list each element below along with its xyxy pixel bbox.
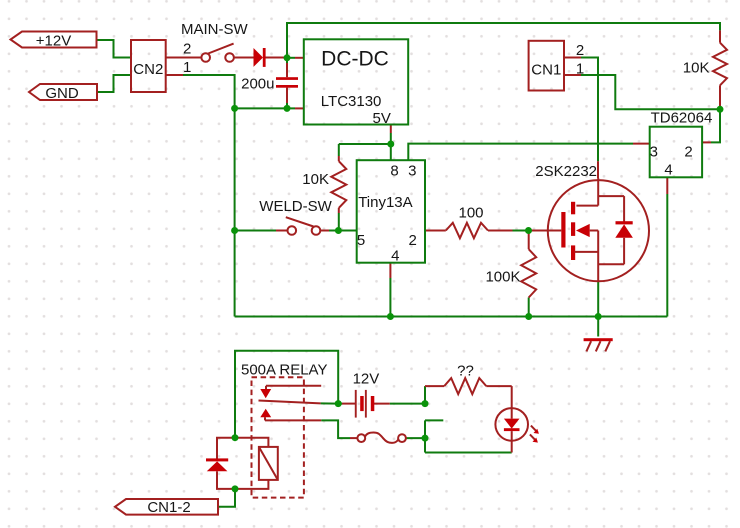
svg-text:Tiny13A: Tiny13A (358, 194, 412, 211)
svg-text:MAIN-SW: MAIN-SW (181, 21, 249, 38)
svg-text:5: 5 (357, 232, 365, 249)
svg-text:2: 2 (409, 232, 417, 249)
svg-text:2SK2232: 2SK2232 (535, 163, 597, 180)
svg-text:2: 2 (576, 42, 584, 59)
svg-text:12V: 12V (353, 371, 380, 388)
svg-text:3: 3 (650, 144, 658, 161)
svg-text:2: 2 (684, 144, 692, 161)
svg-text:2: 2 (183, 41, 191, 58)
svg-text:WELD-SW: WELD-SW (259, 198, 332, 215)
svg-text:CN2: CN2 (133, 61, 163, 78)
svg-text:5V: 5V (373, 110, 391, 127)
svg-text:200u: 200u (241, 76, 274, 93)
svg-text:1: 1 (576, 61, 584, 78)
svg-text:3: 3 (408, 163, 416, 180)
svg-text:CN1: CN1 (531, 61, 561, 78)
svg-text:100: 100 (458, 205, 483, 222)
svg-text:4: 4 (664, 162, 672, 179)
svg-text:4: 4 (391, 248, 399, 265)
svg-text:10K: 10K (302, 171, 329, 188)
svg-text:GND: GND (45, 85, 79, 102)
svg-text:100K: 100K (485, 269, 520, 286)
svg-text:500A RELAY: 500A RELAY (241, 362, 327, 379)
svg-text:DC-DC: DC-DC (321, 47, 389, 70)
svg-text:8: 8 (390, 163, 398, 180)
svg-text:10K: 10K (683, 60, 710, 77)
svg-text:+12V: +12V (36, 32, 71, 49)
svg-text:CN1-2: CN1-2 (147, 499, 190, 516)
svg-text:LTC3130: LTC3130 (321, 93, 382, 110)
svg-text:??: ?? (457, 363, 474, 380)
svg-text:TD62064: TD62064 (651, 110, 713, 127)
svg-text:1: 1 (183, 59, 191, 76)
